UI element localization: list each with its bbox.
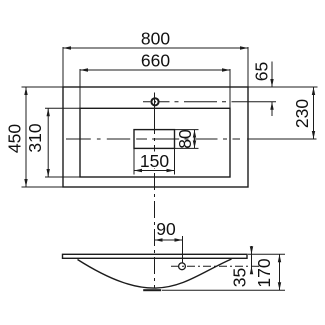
- dimension 150: [134, 148, 175, 174]
- drain fitting (front view): [143, 289, 161, 291]
- inner basin rim (top view): [80, 108, 230, 177]
- svg-text:310: 310: [25, 123, 45, 152]
- svg-text:90: 90: [156, 219, 176, 239]
- vertical centerline: [154, 117, 156, 288]
- faucet hole centerline (horizontal dash-dot): [143, 101, 276, 103]
- overflow hole (front view): [179, 263, 186, 270]
- countertop slab (front view): [63, 254, 248, 258]
- svg-text:150: 150: [140, 151, 169, 171]
- faucet hole crosshair vertical: [154, 93, 156, 118]
- svg-text:80: 80: [175, 129, 195, 149]
- dimension 65: [248, 62, 318, 117]
- dimension 170: [162, 254, 285, 290]
- faucet hole: [151, 98, 158, 105]
- dimension 35: [230, 246, 254, 287]
- dimension 90: [155, 219, 183, 263]
- svg-text:170: 170: [254, 258, 274, 287]
- dimension 230: [292, 87, 315, 139]
- svg-text:660: 660: [141, 51, 170, 71]
- overflow hole centerline: [171, 265, 259, 267]
- dimension 800: [63, 29, 248, 88]
- svg-text:450: 450: [5, 124, 25, 153]
- horizontal centerline: [66, 138, 317, 140]
- basin bowl curve (front view): [78, 259, 232, 288]
- svg-text:800: 800: [141, 29, 170, 49]
- dimension 310: [25, 108, 80, 177]
- svg-text:35: 35: [230, 268, 250, 287]
- outer basin outline (top view): [63, 87, 248, 187]
- svg-text:65: 65: [252, 62, 272, 81]
- svg-text:230: 230: [292, 99, 312, 128]
- dimension 450: [5, 87, 64, 187]
- drain box (top view): [134, 130, 175, 149]
- dimension 80: [175, 129, 199, 149]
- dimension 660: [80, 51, 230, 109]
